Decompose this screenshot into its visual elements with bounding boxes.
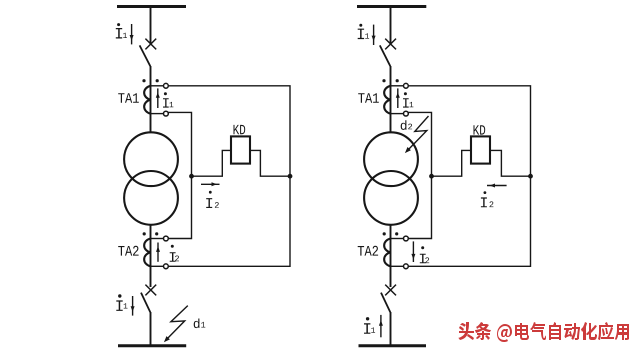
CT TA2 polarity dots (right) <box>383 232 399 235</box>
wire: transformer T1 to disconnector QS2 <box>150 225 152 287</box>
wire: transformer T2 to disconnector QS4 <box>390 225 392 287</box>
disconnector QS2 (open switch with x contact) <box>141 285 156 313</box>
CT TA1 polarity dots <box>142 79 158 82</box>
wire: right TA2 secondary bottom terminal to right junction <box>408 176 530 266</box>
busbar W3 (top right) <box>357 5 426 8</box>
current label I2 with up arrow (TA2 secondary) <box>156 243 179 262</box>
wire: busbar W1 to disconnector QS1 <box>150 8 152 43</box>
label d2 <box>401 120 412 130</box>
CT TA2 polarity dots <box>143 232 159 235</box>
current label I1 with down arrow (bottom left feeder) <box>116 294 134 315</box>
label KD (right) <box>474 125 486 134</box>
wire: relay KD to right junction <box>250 150 290 176</box>
label KD <box>234 125 246 134</box>
relay KD (right differential relay coil) <box>471 136 490 163</box>
fault arrow d2 (internal fault inside transformer T2) <box>405 116 429 153</box>
disconnector QS4 (open switch with x contact) <box>381 285 396 313</box>
wire: left junction to relay KD <box>192 150 232 176</box>
current label I1 with up arrow (bottom right feeder, reversed) <box>364 315 383 337</box>
busbar W1 (top left) <box>117 5 186 8</box>
wire: TA1 secondary top terminal to right leg <box>168 86 290 176</box>
current transformer TA2 (right) <box>384 236 408 269</box>
label TA2 (right) <box>358 246 378 256</box>
wire: QS3 to transformer T2 primary <box>390 66 392 133</box>
label TA1 (right) <box>358 93 379 103</box>
CT TA1 polarity dots (right) <box>382 79 398 82</box>
current label I1 with up arrow (TA1 secondary) <box>156 88 174 108</box>
wire: right left-junction to TA2 secondary top terminal <box>408 176 431 238</box>
current transformer TA1 (right) <box>384 83 408 116</box>
wire: TA2 secondary bottom terminal to right junction <box>168 176 290 266</box>
transformer T2 (two-winding) <box>364 132 418 225</box>
wire: QS4 to busbar W4 <box>390 312 392 345</box>
current label I2 with left arrow (right relay branch current) <box>481 184 507 208</box>
label d1 <box>194 319 206 329</box>
watermark 头条@电气自动化应用 <box>458 322 629 342</box>
wire: left junction to TA2 secondary top terminal <box>168 176 191 238</box>
current label I2 with down arrow (right TA2 secondary, reversed) <box>411 241 429 263</box>
current label I1 with up arrow (right TA1 secondary) <box>396 88 414 108</box>
current label I1 with down arrow (top left feeder) <box>116 23 134 44</box>
busbar W4 (bottom right) <box>359 344 427 347</box>
current label I2 with right arrow (relay branch current) <box>201 182 220 208</box>
node: right circuit right junction <box>528 174 533 179</box>
current transformer TA2 <box>144 236 168 269</box>
node: right junction <box>288 174 293 179</box>
node: left junction <box>189 174 194 179</box>
wire: QS1 to transformer T1 primary <box>150 66 152 133</box>
current label I1 with down arrow (top right feeder) <box>358 24 376 45</box>
current transformer TA1 <box>144 83 168 116</box>
label TA2 <box>118 246 138 256</box>
wire: right left-junction to relay KD <box>432 150 472 176</box>
relay KD (differential relay coil) <box>231 136 250 163</box>
wire: TA1 secondary bottom terminal to left junction <box>168 112 191 176</box>
wire: right TA1 secondary bottom terminal to left junction <box>408 112 431 176</box>
wire: QS2 to busbar W2 <box>150 312 152 345</box>
fault arrow d1 (external fault at busbar W2) <box>164 306 188 343</box>
transformer T1 (two-winding) <box>124 132 178 225</box>
node: right circuit left junction <box>429 174 434 179</box>
disconnector QS3 (open switch with x contact) <box>380 39 396 67</box>
label TA1 <box>118 93 139 103</box>
wire: right TA1 secondary top terminal to right leg <box>408 86 530 176</box>
wire: busbar W3 to disconnector QS3 <box>390 8 392 43</box>
disconnector QS1 (open switch with x contact) <box>140 39 157 67</box>
busbar W2 (bottom left) <box>118 344 186 347</box>
wire: right relay KD to right junction <box>490 150 531 176</box>
